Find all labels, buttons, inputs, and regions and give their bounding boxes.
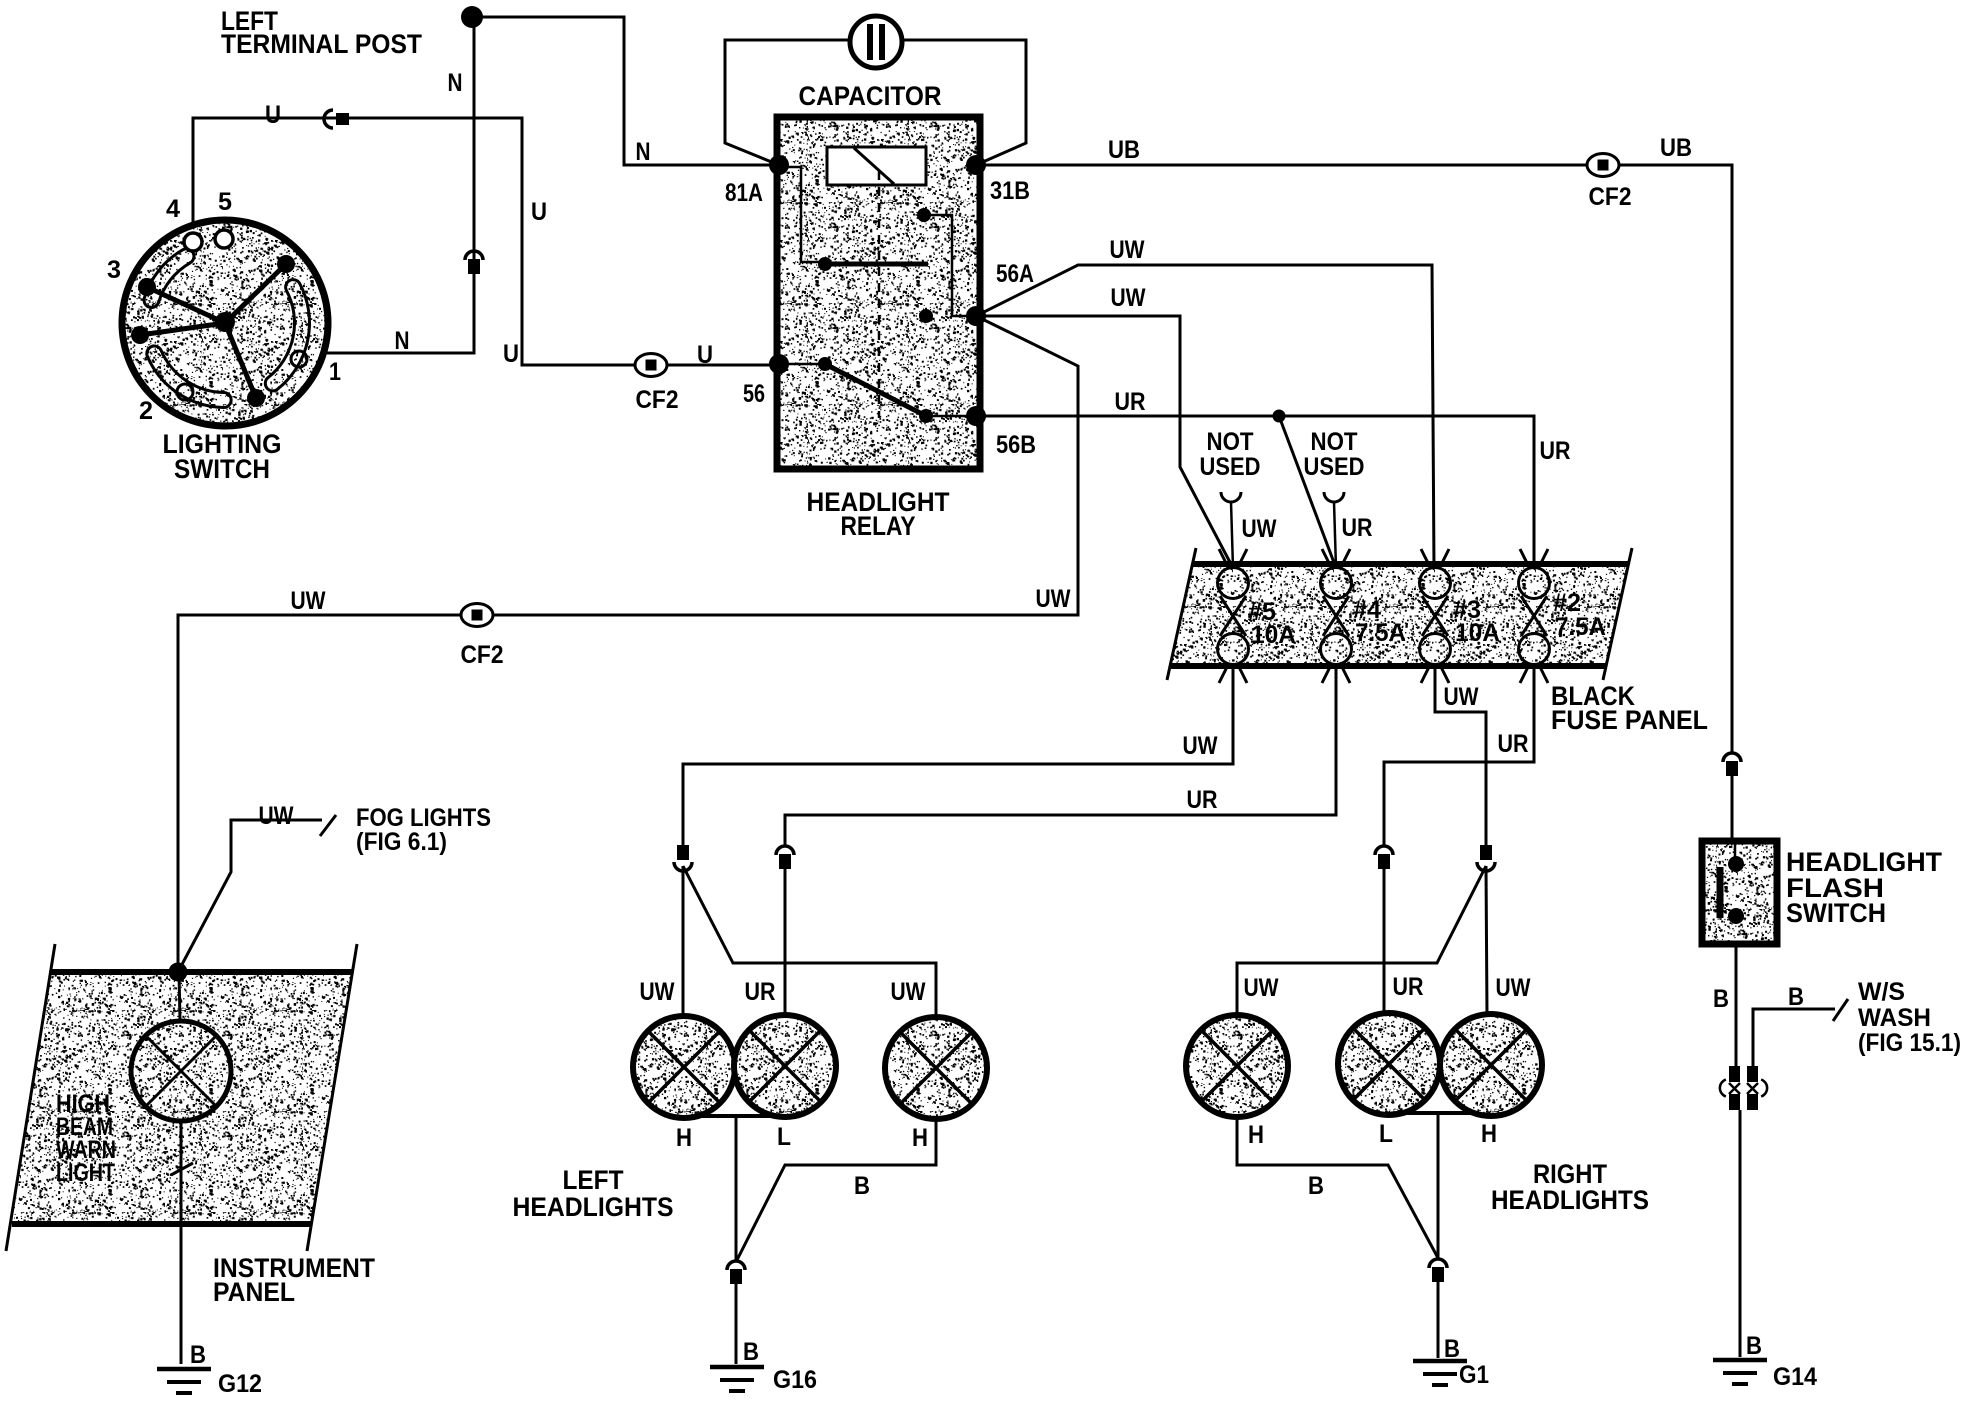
- svg-text:56B: 56B: [996, 431, 1036, 459]
- relay internal wire from fixed contact to 56A: [924, 215, 976, 316]
- wire to left inner high beam lamp: [683, 866, 936, 1017]
- slash to fog lights: [320, 815, 336, 836]
- fuse #5 10A: [1218, 549, 1249, 683]
- svg-text:U: U: [531, 198, 547, 226]
- svg-text:56: 56: [743, 380, 765, 408]
- headlight relay box: [777, 117, 980, 469]
- wire UW from 56A to instrument panel: [178, 316, 1078, 972]
- svg-text:NOT: NOT: [1207, 428, 1254, 456]
- svg-text:G16: G16: [773, 1366, 817, 1394]
- lighting switch terminal 5: [215, 230, 233, 248]
- svg-text:UW: UW: [1244, 974, 1279, 1002]
- svg-text:UW: UW: [1110, 236, 1145, 264]
- wire UR from 56B to fuse 2: [976, 416, 1534, 568]
- connector on U wire: [324, 110, 349, 128]
- svg-text:UR: UR: [745, 978, 776, 1006]
- relay internal dot at 56A: [919, 309, 933, 323]
- relay terminal 81A: [769, 155, 789, 175]
- right headlight inner high beam lamp: [1186, 1015, 1288, 1117]
- svg-text:LEFT: LEFT: [563, 1165, 624, 1195]
- relay dashed linkage line: [878, 171, 881, 418]
- svg-text:2: 2: [139, 397, 153, 425]
- relay upper contact arm: [825, 262, 928, 267]
- svg-text:B: B: [1746, 1332, 1762, 1360]
- svg-text:10A: 10A: [1455, 619, 1500, 647]
- lighting switch small hole in bottom slot: [177, 384, 193, 400]
- svg-text:G14: G14: [1773, 1363, 1817, 1391]
- svg-text:NOT: NOT: [1311, 428, 1358, 456]
- relay lower contact dot: [919, 409, 933, 423]
- slash on instrument panel wire: [171, 1163, 193, 1175]
- wire U from lighting switch pin 4: [193, 118, 779, 365]
- lighting switch: [122, 220, 328, 426]
- svg-text:UR: UR: [1115, 388, 1146, 416]
- wire B from left inner lamp: [737, 1119, 936, 1260]
- wire UR fuse 2 output to right low beam lamp: [1384, 664, 1534, 845]
- svg-text:SWITCH: SWITCH: [1786, 898, 1886, 928]
- svg-text:G12: G12: [218, 1370, 262, 1398]
- wire from lamp to ground G12: [180, 1121, 183, 1364]
- fuse #4 7.5A: [1321, 549, 1352, 683]
- svg-text:L: L: [777, 1123, 791, 1151]
- left headlight inner high beam lamp: [885, 1017, 987, 1119]
- relay terminal 56: [769, 354, 789, 374]
- capacitor right lead wire: [900, 40, 1026, 165]
- wire UR junction to fuse 4: [1279, 416, 1336, 568]
- svg-text:USED: USED: [1304, 453, 1365, 481]
- svg-text:UW: UW: [640, 978, 675, 1006]
- svg-text:UB: UB: [1660, 134, 1692, 162]
- svg-text:B: B: [743, 1338, 759, 1366]
- wire to left low beam lamp: [784, 868, 787, 1015]
- right headlight outer high beam lamp: [1440, 1014, 1542, 1116]
- junction dot on UR wire: [1273, 410, 1286, 423]
- wire N from lighting switch pin 1: [327, 17, 474, 353]
- ground G16: [710, 1367, 764, 1391]
- svg-text:U: U: [265, 101, 281, 129]
- fuse #2 7.5A: [1519, 549, 1550, 683]
- svg-text:UW: UW: [1111, 284, 1146, 312]
- wire B from flash switch: [1735, 944, 1738, 1066]
- wire B from right inner lamp: [1237, 1118, 1438, 1258]
- wire UW from 56A to fuse 3: [976, 265, 1434, 568]
- relay lower arm pivot dot: [818, 357, 832, 371]
- svg-text:RELAY: RELAY: [841, 511, 916, 541]
- svg-text:UB: UB: [1108, 136, 1140, 164]
- svg-text:B: B: [1308, 1172, 1324, 1200]
- svg-text:(FIG 15.1): (FIG 15.1): [1858, 1029, 1961, 1057]
- connector on right UR lamp feed: [1375, 846, 1393, 869]
- svg-text:U: U: [697, 341, 713, 369]
- connector on N wire: [465, 251, 483, 274]
- svg-text:TERMINAL POST: TERMINAL POST: [221, 29, 422, 59]
- svg-text:HEADLIGHTS: HEADLIGHTS: [1491, 1185, 1649, 1215]
- connector CF2 on UB wire: [1587, 154, 1619, 177]
- svg-text:7.5A: 7.5A: [1555, 613, 1606, 641]
- wire to right outer high beam lamp: [1486, 866, 1487, 1015]
- svg-text:UR: UR: [1187, 786, 1218, 814]
- svg-text:WASH: WASH: [1858, 1004, 1931, 1032]
- svg-text:SWITCH: SWITCH: [174, 454, 270, 484]
- svg-text:CAPACITOR: CAPACITOR: [799, 81, 942, 111]
- relay terminal 31B: [966, 155, 986, 175]
- left headlight low beam lamp: [734, 1015, 836, 1117]
- long UW wire already drawn; fog lights branch: [178, 820, 322, 972]
- four-way splice connector: [1720, 1066, 1767, 1110]
- instrument panel: [12, 972, 352, 1224]
- capacitor: [850, 16, 902, 68]
- right headlight low beam lamp: [1338, 1013, 1440, 1115]
- svg-text:W/S: W/S: [1858, 978, 1905, 1006]
- lighting switch hub: [215, 312, 235, 332]
- capacitor left lead wire: [725, 40, 852, 165]
- relay internal wire to 56B: [926, 415, 976, 418]
- svg-text:U: U: [503, 340, 519, 368]
- svg-text:L: L: [1379, 1120, 1393, 1148]
- connector CF2 on long UW wire: [461, 604, 493, 627]
- left headlights ground bus bar: [700, 1114, 800, 1118]
- svg-text:UR: UR: [1498, 730, 1529, 758]
- svg-text:CF2: CF2: [636, 386, 679, 414]
- svg-text:H: H: [912, 1124, 928, 1152]
- lighting switch small hole in right slot: [291, 351, 307, 367]
- lighting switch contact dots: [277, 255, 295, 273]
- svg-text:N: N: [395, 327, 410, 355]
- svg-text:CF2: CF2: [461, 641, 504, 669]
- wire B from windshield wash: [1753, 1009, 1835, 1066]
- NOT USED connector 1: [1221, 492, 1241, 502]
- relay internal wire 56 to lower arm pivot: [779, 363, 825, 366]
- svg-text:7.5A: 7.5A: [1355, 619, 1406, 647]
- svg-text:UW: UW: [1036, 585, 1071, 613]
- svg-text:CF2: CF2: [1589, 183, 1632, 211]
- wire N from terminal post to relay 81A: [472, 17, 779, 165]
- svg-text:B: B: [1713, 985, 1729, 1013]
- svg-text:B: B: [1788, 983, 1804, 1011]
- connector on UB wire above flash switch: [1723, 753, 1741, 776]
- svg-text:UR: UR: [1393, 973, 1424, 1001]
- relay arm pivot dot: [818, 257, 832, 271]
- fuse #3 10A: [1420, 549, 1451, 683]
- lighting switch terminal 4: [184, 233, 202, 251]
- wire UW fuse 3 output to right headlights: [1435, 664, 1486, 845]
- connector on left ground wire: [727, 1261, 745, 1284]
- svg-text:UR: UR: [1342, 514, 1373, 542]
- relay terminal 56B: [966, 406, 986, 426]
- connector on right ground wire: [1429, 1259, 1447, 1282]
- svg-text:LIGHT: LIGHT: [56, 1159, 115, 1187]
- connector CF2 on U wire: [635, 354, 667, 377]
- svg-text:31B: 31B: [990, 177, 1030, 205]
- svg-text:81A: 81A: [725, 179, 763, 207]
- svg-text:1: 1: [329, 358, 341, 386]
- wire B left headlights to ground: [735, 1116, 738, 1260]
- svg-text:HEADLIGHTS: HEADLIGHTS: [513, 1192, 674, 1222]
- wire UW from 56A to fuse 5: [976, 316, 1233, 568]
- svg-text:UW: UW: [1444, 683, 1479, 711]
- wire to right low beam lamp: [1383, 868, 1386, 1013]
- svg-text:(FIG 6.1): (FIG 6.1): [356, 828, 447, 856]
- lighting switch slots: [144, 249, 194, 308]
- svg-text:UW: UW: [1183, 732, 1218, 760]
- relay terminal 56A: [966, 306, 986, 326]
- svg-text:4: 4: [166, 195, 180, 223]
- svg-text:B: B: [854, 1172, 870, 1200]
- svg-text:G1: G1: [1459, 1361, 1489, 1389]
- flash switch contact dots: [1728, 856, 1744, 872]
- relay internal wire from 81A to upper arm pivot: [781, 167, 825, 264]
- wire UB into flash switch: [1731, 776, 1734, 841]
- flash switch blade: [1717, 867, 1724, 918]
- right headlights ground bus bar: [1400, 1111, 1475, 1115]
- left terminal post: [461, 6, 483, 28]
- ground G12: [157, 1369, 211, 1393]
- svg-text:B: B: [190, 1341, 206, 1369]
- svg-text:H: H: [1248, 1121, 1264, 1149]
- black fuse panel: [1171, 564, 1628, 666]
- svg-text:FUSE PANEL: FUSE PANEL: [1551, 705, 1708, 735]
- svg-text:H: H: [1481, 1120, 1497, 1148]
- svg-text:N: N: [448, 69, 463, 97]
- ground G1: [1413, 1361, 1467, 1385]
- svg-text:UW: UW: [259, 802, 294, 830]
- wire UR fuse 4 output to left low beam lamp: [785, 664, 1336, 846]
- wire UW fuse 5 output to left headlights: [683, 664, 1233, 845]
- connector on left UW lamp feed: [674, 845, 692, 871]
- svg-text:PANEL: PANEL: [213, 1277, 295, 1307]
- svg-text:H: H: [676, 1124, 692, 1152]
- junction dot on instrument panel: [169, 963, 188, 982]
- connector on left UR lamp feed: [776, 846, 794, 869]
- relay upper fixed contact dot: [917, 208, 931, 222]
- left headlight outer high beam lamp: [633, 1016, 735, 1118]
- svg-text:UW: UW: [1242, 515, 1277, 543]
- svg-text:56A: 56A: [996, 260, 1034, 288]
- svg-text:10A: 10A: [1251, 621, 1296, 649]
- svg-text:UW: UW: [1496, 974, 1531, 1002]
- headlight flash switch: [1702, 841, 1777, 944]
- ground G14: [1713, 1360, 1767, 1384]
- svg-text:3: 3: [107, 256, 121, 284]
- slash to W/S wash: [1833, 999, 1848, 1021]
- high beam warn light lamp: [131, 1021, 231, 1121]
- wire to high beam warn light: [179, 972, 180, 1021]
- svg-text:N: N: [636, 138, 651, 166]
- connector on right UW lamp feed: [1477, 845, 1495, 871]
- svg-text:UW: UW: [891, 978, 926, 1006]
- svg-text:UR: UR: [1540, 437, 1571, 465]
- svg-text:USED: USED: [1200, 453, 1261, 481]
- NOT USED connector 2: [1324, 492, 1344, 502]
- relay lower contact arm: [825, 364, 926, 416]
- svg-text:UW: UW: [291, 587, 326, 615]
- wire UB from 31B to headlight flash switch: [976, 165, 1732, 752]
- wire B to ground G14: [1739, 1110, 1742, 1357]
- wire B right headlights to ground: [1437, 1113, 1440, 1258]
- lighting switch rotor spokes: [225, 264, 286, 323]
- svg-text:5: 5: [218, 188, 232, 216]
- wire to left outer high beam lamp: [682, 866, 685, 1016]
- wire to right inner high beam lamp: [1237, 866, 1486, 1015]
- relay coil: [827, 147, 926, 185]
